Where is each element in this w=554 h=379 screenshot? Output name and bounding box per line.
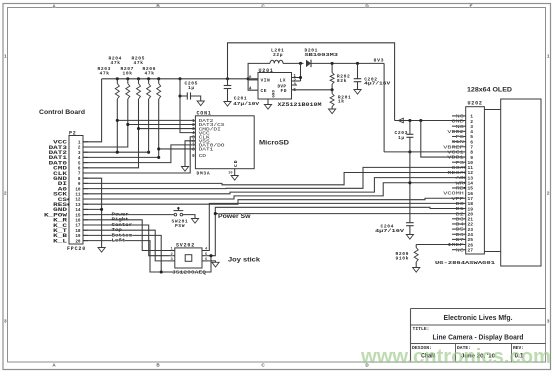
resistor R209 910k on IREF [416, 244, 466, 246]
capacitor C202 4u7/16V [357, 63, 359, 78]
resistor R201 1k [331, 90, 333, 94]
svg-text:12: 12 [467, 170, 473, 176]
resistor R203 47k body [116, 79, 118, 84]
wire VCC row into U202 pin2 [395, 120, 466, 122]
svg-text:24: 24 [467, 232, 473, 238]
joystick pin 6 [202, 260, 208, 262]
svg-text:NC: NC [456, 114, 465, 120]
svg-text:3: 3 [4, 319, 7, 324]
svg-text:22: 22 [467, 222, 473, 228]
svg-text:3: 3 [470, 124, 473, 130]
svg-text:VCOMH: VCOMH [443, 191, 464, 197]
wire joystick pin6 to ground [208, 261, 215, 262]
svg-text:VBREF: VBREF [443, 144, 464, 150]
svg-text:U202: U202 [468, 101, 483, 107]
svg-text:3: 3 [547, 319, 550, 324]
svg-text:FG: FG [456, 134, 465, 140]
svg-text:15: 15 [467, 186, 473, 192]
rail junction [226, 77, 229, 80]
svg-text:4: 4 [470, 129, 473, 135]
svg-text:1µ: 1µ [398, 135, 405, 141]
power arrow on VCC row [398, 118, 403, 123]
svg-text:WR: WR [456, 180, 465, 186]
wire VCC from P2 pin1 up to rail [83, 79, 102, 142]
svg-text:CD: CD [233, 159, 239, 167]
svg-text:FD: FD [281, 88, 288, 94]
svg-text:C1N: C1N [452, 139, 465, 145]
svg-text:14: 14 [467, 181, 473, 187]
rail junction [247, 77, 250, 80]
svg-text:82k: 82k [337, 78, 347, 84]
svg-text:D5: D5 [456, 227, 465, 233]
wire bus A0: P2 pin10 to U202 pin11 [83, 167, 466, 188]
wire VCC branch from rail to CON1 pin4 [180, 79, 195, 133]
connector U202 body [466, 107, 485, 254]
wire inductor to LX and diode [283, 62, 304, 64]
svg-text:Joy stick: Joy stick [228, 257, 260, 264]
svg-text:910k: 910k [396, 256, 409, 262]
wire DAT2 net: R203 column to CON1 pin1 and P2 pin3 [116, 99, 118, 152]
svg-text:NC: NC [456, 124, 465, 130]
wire bus DI: P2 pin9 to U202 pin12 [83, 172, 466, 184]
svg-text:2: 2 [4, 191, 7, 196]
rail junction [116, 77, 119, 80]
OLED panel outline [501, 99, 541, 266]
svg-text:9: 9 [470, 155, 473, 161]
svg-text:7: 7 [470, 145, 473, 151]
svg-text:XZ5121B010M: XZ5121B010M [278, 102, 322, 108]
svg-text:1µ: 1µ [188, 85, 195, 91]
wire 8V3 row into U202 pin8 [384, 151, 466, 153]
wire branch to U202 pin20 [215, 213, 465, 215]
svg-text:D3: D3 [456, 216, 465, 222]
svg-text:2: 2 [470, 119, 473, 125]
wire bus CS#: P2 pin12 to U202 pin14 [83, 183, 466, 199]
svg-text:1: 1 [547, 54, 550, 59]
resistor R206 47k body [158, 79, 160, 84]
connector CON1 body microSD socket [195, 116, 254, 169]
svg-text:5: 5 [293, 88, 296, 93]
svg-text:IREF: IREF [447, 242, 464, 248]
svg-text:20: 20 [467, 211, 473, 217]
svg-text:47k: 47k [134, 60, 144, 66]
wire DAT0 net: R205 column, P2 pin5 riser to CON1 pin7 [148, 99, 150, 152]
rail junction [157, 77, 160, 80]
connector P2 body FPC20 [69, 136, 83, 245]
svg-text:13: 13 [467, 175, 473, 181]
svg-text:Electronic Lives Mfg.: Electronic Lives Mfg. [444, 315, 513, 322]
joystick button square [185, 255, 192, 262]
wire VDD branch col to U202 pin9 [421, 121, 466, 158]
svg-text:www.cntronics.com: www.cntronics.com [360, 346, 551, 368]
svg-text:CD: CD [199, 153, 207, 159]
svg-text:LX: LX [280, 78, 287, 84]
svg-text:D6: D6 [456, 232, 465, 238]
svg-text:PS: PS [456, 160, 465, 166]
svg-text:23: 23 [467, 227, 473, 233]
svg-text:TITLE:: TITLE: [413, 326, 430, 332]
svg-text:CS#: CS# [452, 165, 465, 171]
svg-text:UG-2864ASWAG01: UG-2864ASWAG01 [435, 260, 495, 266]
wire CLK net: P2 pin7 to CON1 pin5 [83, 137, 195, 173]
svg-text:PSW: PSW [175, 223, 185, 229]
svg-text:D1: D1 [456, 206, 465, 212]
resistor R207 10k body [138, 79, 140, 84]
wire power switch net [83, 214, 174, 216]
svg-text:A0: A0 [456, 175, 465, 181]
rail junction [126, 77, 129, 80]
wire VIN riser to inductor [248, 63, 270, 78]
svg-text:DAT1: DAT1 [199, 147, 214, 153]
svg-text:VIN: VIN [261, 78, 271, 84]
ground for R209 [413, 268, 420, 273]
wire U202 to panel bottom [484, 251, 500, 253]
svg-text:Line Camera - Display Board: Line Camera - Display Board [433, 335, 524, 342]
ground for C204 [406, 235, 413, 240]
svg-text:21: 21 [467, 217, 473, 223]
svg-text:CE: CE [261, 88, 268, 94]
svg-text:128x64 OLED: 128x64 OLED [467, 87, 512, 94]
svg-text:SB1003M3: SB1003M3 [305, 52, 339, 58]
joystick pin 1 [169, 250, 175, 252]
joystick pin 5 [202, 255, 208, 257]
wire VCC top run to OLED [228, 43, 395, 121]
svg-text:1: 1 [4, 54, 7, 59]
svg-text:8V3: 8V3 [374, 58, 385, 64]
svg-text:1k: 1k [338, 99, 345, 105]
wire joystick pin5 riser to U202 pin19 [208, 207, 466, 255]
title block bottom row line [411, 343, 546, 345]
wire DAT1 net: R206 column to CON1 pin8 and P2 pin4 [158, 99, 160, 157]
wire VCC rail [102, 78, 258, 80]
svg-text:FPC20: FPC20 [67, 246, 86, 252]
wire Left key bottom route to joystick pin5 [83, 241, 211, 272]
ground for SW201 [191, 219, 198, 224]
ground for C205 [197, 101, 204, 106]
svg-text:1: 1 [470, 114, 473, 120]
U201 CE pin stub tied to VIN [248, 80, 258, 90]
svg-text:DM3A: DM3A [197, 171, 211, 177]
svg-text:D0: D0 [456, 201, 465, 207]
svg-text:47µ/10V: 47µ/10V [233, 101, 259, 107]
svg-text:10: 10 [467, 160, 473, 166]
svg-text:Power Sw: Power Sw [218, 213, 251, 220]
svg-text:16: 16 [467, 191, 473, 197]
wire bus RES#: P2 pin13 to U202 pin17 [83, 198, 466, 204]
svg-text:RES#: RES# [447, 170, 464, 176]
svg-text:GND: GND [452, 119, 465, 125]
wire U202 to panel top [484, 109, 500, 111]
svg-text:4µ7/16V: 4µ7/16V [364, 81, 390, 87]
svg-text:VDD1: VDD1 [447, 155, 464, 161]
resistor R202 82k [331, 63, 333, 72]
svg-text:5: 5 [470, 134, 473, 140]
title block outline [411, 308, 546, 310]
U201 VIN pin stub [248, 79, 258, 81]
wire DAT3 net: R204 column to CON1 pin2 and P2 pin2 [83, 99, 128, 147]
U201 VP pin stub [292, 84, 298, 86]
svg-text:8: 8 [470, 150, 473, 156]
ground for CD pin [231, 176, 238, 181]
wire GND: P2 pin8 down to ground, P2 pin14 join [83, 178, 102, 247]
svg-text:NC: NC [456, 247, 465, 253]
ground for R201 [329, 109, 336, 114]
wire Center key to joystick pin2 [83, 225, 169, 256]
svg-text:22µ: 22µ [273, 52, 283, 58]
svg-text:20: 20 [75, 239, 81, 244]
ground for joystick common [212, 262, 219, 267]
svg-text:27: 27 [467, 247, 473, 253]
title block company row line [411, 324, 546, 326]
resistor R205 47k body [148, 79, 150, 84]
svg-text:6: 6 [470, 139, 473, 145]
rail junction [137, 77, 140, 80]
svg-text:19: 19 [467, 206, 473, 212]
wire 8V3 down to OLED pin8 [383, 63, 385, 151]
rail junction [178, 77, 181, 80]
svg-text:17: 17 [467, 196, 473, 202]
joystick pin 2 [169, 255, 175, 257]
svg-text:Bottom: Bottom [112, 232, 133, 238]
joystick pin 3 [169, 260, 175, 262]
wire Top key to joystick pin3 [83, 230, 169, 261]
wire CMD net: R207 column to CON1 pin3 and P2 pin6 [83, 99, 139, 168]
wire switch to ground [183, 215, 195, 219]
svg-text:26: 26 [467, 242, 473, 248]
wire bus SCK: P2 pin11 to U202 pin13 [83, 178, 466, 194]
U201 FD pin wire to feedback divider [292, 89, 333, 91]
svg-text:VPP: VPP [452, 196, 465, 202]
svg-text:MicroSD: MicroSD [259, 140, 289, 147]
svg-text:2: 2 [547, 191, 550, 196]
svg-text:Left: Left [112, 238, 126, 244]
ground for P2 GND [98, 248, 105, 253]
ground for CON1 VSS [181, 167, 188, 172]
svg-text:11: 11 [467, 165, 473, 171]
svg-text:25: 25 [467, 237, 473, 243]
wire Right key to joystick pin1 [83, 220, 169, 251]
svg-text:D4: D4 [456, 222, 465, 228]
svg-text:4µ7/16V: 4µ7/16V [375, 228, 404, 234]
svg-text:RD: RD [456, 186, 465, 192]
svg-text:47k: 47k [111, 60, 121, 66]
svg-text:10k: 10k [123, 71, 133, 77]
wire Bottom key to bottom route [83, 235, 161, 272]
U201 GND pin to ground [267, 99, 269, 105]
svg-text:GND: GND [273, 89, 277, 97]
svg-text:D7: D7 [456, 237, 465, 243]
svg-text:47k: 47k [145, 71, 155, 77]
svg-text:VDD2: VDD2 [447, 129, 464, 135]
svg-text:VCC1: VCC1 [447, 150, 464, 156]
svg-text:K_L: K_L [53, 238, 67, 244]
wire VSS: CON1 pin6 to ground [185, 141, 195, 167]
resistor R204 47k body [127, 79, 129, 84]
U201 LX pins to inductor node [292, 77, 301, 79]
svg-text:18: 18 [467, 201, 473, 207]
wire joystick pin4 riser to U202 pin18 [208, 203, 466, 250]
svg-text:10: 10 [228, 172, 232, 176]
wire 8V3 output net [311, 62, 384, 64]
svg-text:JS1200AEQ: JS1200AEQ [172, 270, 206, 276]
svg-text:D2: D2 [456, 211, 465, 217]
joystick pin 4 [202, 250, 208, 252]
switch SW201 PSW [174, 213, 177, 216]
joystick SV202 body [175, 248, 202, 268]
svg-text:47k: 47k [100, 71, 110, 77]
ground for C201 [224, 102, 231, 107]
svg-text:Control Board: Control Board [39, 109, 85, 116]
capacitor C201 47u/10V electrolytic [227, 79, 229, 86]
title block dividers [455, 344, 457, 363]
svg-text:C201: C201 [234, 96, 247, 102]
rail junction [147, 77, 150, 80]
svg-text:E: E [469, 3, 472, 8]
